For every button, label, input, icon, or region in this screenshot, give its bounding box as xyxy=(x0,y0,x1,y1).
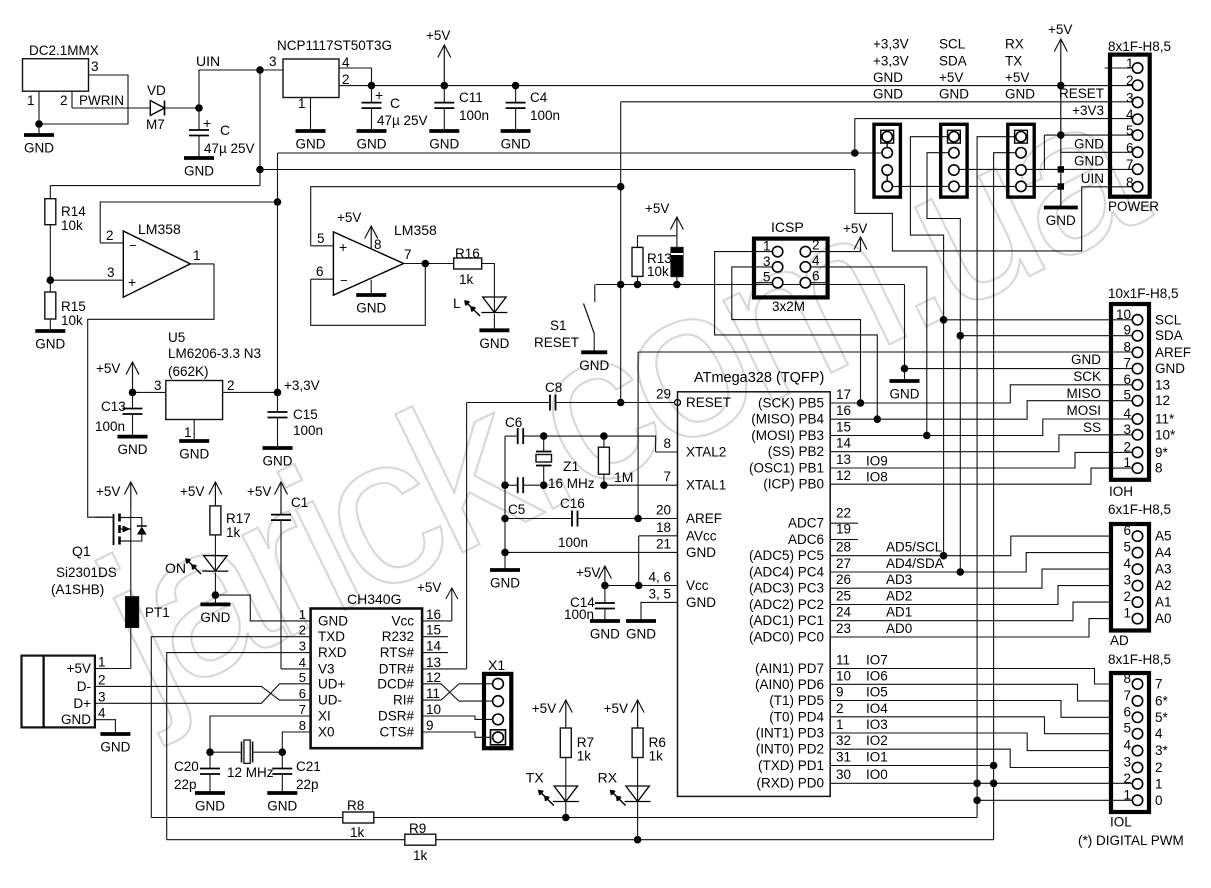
svg-text:100n: 100n xyxy=(564,607,594,622)
svg-text:DSR#: DSR# xyxy=(378,709,415,724)
svg-text:−: − xyxy=(129,238,137,253)
svg-text:7: 7 xyxy=(1123,688,1131,703)
svg-text:7: 7 xyxy=(663,469,671,484)
svg-text:AD3: AD3 xyxy=(886,572,912,587)
svg-text:31: 31 xyxy=(836,750,851,765)
svg-text:IOH: IOH xyxy=(1109,484,1133,499)
svg-text:8: 8 xyxy=(374,237,382,252)
svg-text:IO3: IO3 xyxy=(866,717,888,732)
svg-text:12: 12 xyxy=(1155,393,1170,408)
svg-text:4: 4 xyxy=(1126,107,1134,122)
svg-text:GND: GND xyxy=(1074,137,1104,152)
svg-text:8x1F-H8,5: 8x1F-H8,5 xyxy=(1108,652,1171,667)
svg-text:IO8: IO8 xyxy=(866,470,888,485)
svg-text:2: 2 xyxy=(227,378,235,393)
svg-text:1: 1 xyxy=(1123,455,1131,470)
svg-text:4: 4 xyxy=(98,706,106,721)
svg-text:TX: TX xyxy=(1005,53,1022,68)
svg-text:XTAL1: XTAL1 xyxy=(686,478,726,493)
svg-text:R17: R17 xyxy=(226,511,251,526)
svg-text:A3: A3 xyxy=(1155,562,1172,577)
svg-text:+: + xyxy=(375,87,383,103)
svg-text:29: 29 xyxy=(656,387,671,402)
svg-text:GND: GND xyxy=(200,610,230,625)
svg-text:16: 16 xyxy=(836,403,851,418)
svg-text:10: 10 xyxy=(426,702,441,717)
svg-text:22p: 22p xyxy=(296,777,319,792)
svg-text:13: 13 xyxy=(836,452,851,467)
svg-text:6: 6 xyxy=(316,264,324,279)
svg-text:IO6: IO6 xyxy=(866,668,888,683)
svg-text:23: 23 xyxy=(836,621,851,636)
svg-text:+5V: +5V xyxy=(417,580,441,595)
svg-text:1: 1 xyxy=(27,93,35,108)
svg-text:Vcc: Vcc xyxy=(391,613,414,628)
svg-text:R15: R15 xyxy=(61,299,86,314)
svg-text:+5V: +5V xyxy=(576,565,600,580)
svg-text:GND: GND xyxy=(263,454,293,469)
svg-text:10k: 10k xyxy=(647,264,669,279)
svg-text:2: 2 xyxy=(98,672,106,687)
svg-text:C1: C1 xyxy=(291,495,308,510)
svg-text:+5V: +5V xyxy=(96,484,120,499)
svg-text:ADC7: ADC7 xyxy=(788,516,824,531)
svg-text:R14: R14 xyxy=(61,204,86,219)
svg-text:Q1: Q1 xyxy=(72,543,91,559)
svg-text:15: 15 xyxy=(426,623,441,638)
svg-text:GND: GND xyxy=(118,442,148,457)
svg-text:TXD: TXD xyxy=(318,629,345,644)
svg-text:10k: 10k xyxy=(61,313,83,328)
svg-text:3, 5: 3, 5 xyxy=(648,586,671,601)
svg-text:IO7: IO7 xyxy=(866,653,888,668)
svg-text:IOL: IOL xyxy=(1110,815,1132,830)
svg-text:PT1: PT1 xyxy=(145,605,170,620)
svg-text:XTAL2: XTAL2 xyxy=(686,445,726,460)
svg-text:(RXD) PD0: (RXD) PD0 xyxy=(756,776,824,791)
svg-text:GND: GND xyxy=(1074,154,1104,169)
svg-text:AREF: AREF xyxy=(1155,345,1191,360)
svg-text:8x1F-H8,5: 8x1F-H8,5 xyxy=(1108,39,1171,54)
svg-text:+5V: +5V xyxy=(337,210,361,225)
svg-text:RESET: RESET xyxy=(534,335,579,350)
svg-text:SCL: SCL xyxy=(939,37,966,52)
svg-text:1: 1 xyxy=(98,655,106,670)
svg-text:GND: GND xyxy=(179,447,209,462)
svg-text:47µ 25V: 47µ 25V xyxy=(204,141,255,156)
svg-text:1: 1 xyxy=(1123,787,1131,802)
svg-text:7: 7 xyxy=(299,702,306,717)
svg-text:9: 9 xyxy=(1123,323,1131,338)
svg-text:IO9: IO9 xyxy=(866,454,888,469)
svg-text:GND: GND xyxy=(579,358,609,373)
svg-text:MOSI: MOSI xyxy=(1066,403,1101,418)
svg-text:AREF: AREF xyxy=(686,511,722,526)
svg-text:19: 19 xyxy=(836,522,851,537)
svg-text:7: 7 xyxy=(1126,157,1134,172)
svg-text:4: 4 xyxy=(1155,726,1163,741)
svg-text:7: 7 xyxy=(1123,356,1131,371)
svg-text:+5V: +5V xyxy=(604,701,628,716)
svg-text:X1: X1 xyxy=(488,657,505,673)
svg-text:2: 2 xyxy=(1123,439,1131,454)
svg-text:8: 8 xyxy=(1123,671,1131,686)
svg-text:POWER: POWER xyxy=(1108,199,1159,214)
svg-text:6: 6 xyxy=(299,686,306,701)
svg-text:GND: GND xyxy=(35,337,65,352)
svg-text:R9: R9 xyxy=(409,821,426,836)
svg-text:AD2: AD2 xyxy=(886,589,912,604)
svg-text:1: 1 xyxy=(1126,56,1134,71)
svg-text:8: 8 xyxy=(1123,339,1131,354)
svg-text:(AIN1) PD7: (AIN1) PD7 xyxy=(755,661,824,676)
svg-text:16 MHz: 16 MHz xyxy=(548,476,595,491)
svg-text:RESET: RESET xyxy=(686,395,731,410)
svg-text:ICSP: ICSP xyxy=(771,219,804,235)
svg-text:(ADC3) PC3: (ADC3) PC3 xyxy=(749,581,824,596)
svg-text:2: 2 xyxy=(836,701,844,716)
svg-text:+: + xyxy=(203,115,211,131)
svg-text:7: 7 xyxy=(404,247,412,262)
svg-text:RI#: RI# xyxy=(393,693,415,708)
svg-text:(TXD) PD1: (TXD) PD1 xyxy=(758,758,824,773)
svg-text:1: 1 xyxy=(763,239,771,254)
svg-text:GND: GND xyxy=(1071,352,1101,367)
svg-text:L: L xyxy=(453,295,461,311)
svg-text:28: 28 xyxy=(836,540,851,555)
svg-text:2: 2 xyxy=(1123,771,1131,786)
svg-text:D+: D+ xyxy=(73,696,91,711)
svg-text:(OSC1) PB1: (OSC1) PB1 xyxy=(749,461,824,476)
svg-text:+5V: +5V xyxy=(96,361,120,376)
svg-text:15: 15 xyxy=(836,420,851,435)
svg-text:18: 18 xyxy=(656,520,671,535)
svg-text:27: 27 xyxy=(836,556,851,571)
svg-text:1: 1 xyxy=(1123,606,1131,621)
svg-text:GND: GND xyxy=(318,613,348,628)
svg-text:2: 2 xyxy=(812,238,820,253)
svg-text:11: 11 xyxy=(426,686,440,701)
svg-text:+5V: +5V xyxy=(1005,70,1029,85)
svg-text:(SS) PB2: (SS) PB2 xyxy=(768,444,824,459)
svg-text:C: C xyxy=(220,122,230,138)
svg-text:C20: C20 xyxy=(174,759,199,774)
svg-text:12: 12 xyxy=(836,468,851,483)
svg-text:U5: U5 xyxy=(168,330,185,345)
svg-text:3: 3 xyxy=(1123,422,1131,437)
svg-text:+5V: +5V xyxy=(426,28,450,43)
svg-text:10x1F-H8,5: 10x1F-H8,5 xyxy=(1108,286,1179,301)
svg-text:13: 13 xyxy=(1155,377,1170,392)
svg-text:1: 1 xyxy=(299,607,306,622)
svg-text:Si2301DS: Si2301DS xyxy=(56,565,117,580)
svg-text:(AIN0) PD6: (AIN0) PD6 xyxy=(755,677,824,692)
svg-text:CH340G: CH340G xyxy=(347,591,401,607)
svg-text:4: 4 xyxy=(299,655,306,670)
svg-text:GND: GND xyxy=(429,137,459,152)
svg-text:4, 6: 4, 6 xyxy=(648,570,671,585)
svg-text:4: 4 xyxy=(1123,406,1131,421)
svg-text:GND: GND xyxy=(61,712,91,727)
svg-text:3*: 3* xyxy=(1155,743,1169,758)
svg-text:+5V: +5V xyxy=(67,661,91,676)
svg-text:2: 2 xyxy=(299,623,306,638)
svg-text:V3: V3 xyxy=(318,661,335,676)
svg-text:2: 2 xyxy=(106,228,114,243)
svg-text:1k: 1k xyxy=(350,825,365,840)
svg-text:3: 3 xyxy=(154,378,162,393)
svg-text:RX: RX xyxy=(598,770,618,786)
svg-text:D-: D- xyxy=(77,679,91,694)
svg-text:C15: C15 xyxy=(293,407,318,422)
svg-text:(ADC2) PC2: (ADC2) PC2 xyxy=(749,597,824,612)
svg-text:ON: ON xyxy=(165,560,186,576)
svg-text:AD5/SCL: AD5/SCL xyxy=(886,540,943,555)
svg-text:1: 1 xyxy=(1155,776,1163,791)
svg-text:GND: GND xyxy=(939,87,969,102)
svg-text:3: 3 xyxy=(1123,573,1131,588)
svg-text:DC2.1MMX: DC2.1MMX xyxy=(29,43,99,58)
svg-text:A0: A0 xyxy=(1155,611,1172,626)
svg-text:0: 0 xyxy=(1155,793,1163,808)
svg-text:3x2M: 3x2M xyxy=(772,299,805,314)
svg-text:LM6206-3.3 N3: LM6206-3.3 N3 xyxy=(168,346,261,361)
svg-text:S1: S1 xyxy=(550,318,567,333)
svg-text:SDA: SDA xyxy=(939,53,967,68)
svg-text:Vcc: Vcc xyxy=(686,578,709,593)
svg-text:X0: X0 xyxy=(318,725,335,740)
svg-text:5: 5 xyxy=(1123,540,1131,555)
svg-text:(MISO) PB4: (MISO) PB4 xyxy=(751,412,824,427)
svg-text:+5V: +5V xyxy=(645,201,669,216)
svg-text:SCL: SCL xyxy=(1155,312,1182,327)
svg-text:RESET: RESET xyxy=(1059,86,1104,101)
svg-text:21: 21 xyxy=(656,536,671,551)
svg-text:2: 2 xyxy=(342,72,350,87)
svg-text:GND: GND xyxy=(873,70,903,85)
svg-text:20: 20 xyxy=(656,503,671,518)
svg-text:GND: GND xyxy=(356,301,386,316)
svg-text:(ADC4) PC4: (ADC4) PC4 xyxy=(749,565,825,580)
svg-text:1M: 1M xyxy=(614,469,633,485)
svg-text:AD: AD xyxy=(1110,633,1129,648)
svg-text:PWRIN: PWRIN xyxy=(79,93,124,108)
svg-text:100n: 100n xyxy=(95,419,125,434)
svg-text:A4: A4 xyxy=(1155,545,1172,560)
svg-text:5: 5 xyxy=(1123,721,1131,736)
svg-text:GND: GND xyxy=(267,799,297,814)
svg-text:4: 4 xyxy=(1123,556,1131,571)
svg-text:2: 2 xyxy=(60,93,68,108)
svg-text:3: 3 xyxy=(98,689,106,704)
svg-text:+3,3V: +3,3V xyxy=(284,378,320,393)
svg-text:25: 25 xyxy=(836,589,851,604)
svg-text:TX: TX xyxy=(526,770,545,786)
svg-text:GND: GND xyxy=(296,137,326,152)
svg-text:22p: 22p xyxy=(174,777,197,792)
svg-text:10: 10 xyxy=(1116,307,1131,322)
svg-text:(*) DIGITAL PWM: (*) DIGITAL PWM xyxy=(1078,833,1184,848)
svg-text:(ADC5) PC5: (ADC5) PC5 xyxy=(749,548,824,563)
svg-text:9*: 9* xyxy=(1155,445,1169,460)
svg-text:5: 5 xyxy=(1123,388,1131,403)
svg-text:C6: C6 xyxy=(505,415,522,430)
svg-text:(T0) PD4: (T0) PD4 xyxy=(769,709,824,724)
svg-text:32: 32 xyxy=(836,733,851,748)
svg-text:(SCK) PB5: (SCK) PB5 xyxy=(758,396,824,411)
svg-text:30: 30 xyxy=(836,767,851,782)
svg-text:A1: A1 xyxy=(1155,595,1172,610)
svg-text:(MOSI) PB3: (MOSI) PB3 xyxy=(751,428,824,443)
svg-text:12: 12 xyxy=(426,670,441,685)
svg-text:SS: SS xyxy=(1083,420,1101,435)
svg-text:XI: XI xyxy=(318,709,331,724)
svg-text:+3,3V: +3,3V xyxy=(873,53,909,68)
svg-text:6*: 6* xyxy=(1155,693,1169,708)
svg-text:SCK: SCK xyxy=(1073,369,1101,384)
svg-text:17: 17 xyxy=(836,387,851,402)
svg-text:C16: C16 xyxy=(560,496,585,511)
svg-text:R232: R232 xyxy=(382,629,414,644)
svg-text:GND: GND xyxy=(590,627,620,642)
svg-text:1k: 1k xyxy=(413,848,428,863)
svg-text:SDA: SDA xyxy=(1155,328,1183,343)
svg-text:1k: 1k xyxy=(226,525,241,540)
svg-text:7: 7 xyxy=(1155,677,1163,692)
svg-text:14: 14 xyxy=(426,639,442,654)
svg-text:+3V3: +3V3 xyxy=(1072,103,1104,118)
svg-text:GND: GND xyxy=(184,164,214,179)
svg-text:2: 2 xyxy=(1123,589,1131,604)
svg-text:8: 8 xyxy=(1155,461,1163,476)
svg-text:4: 4 xyxy=(1123,738,1131,753)
svg-text:9: 9 xyxy=(836,685,844,700)
svg-text:A5: A5 xyxy=(1155,529,1172,544)
svg-text:8: 8 xyxy=(299,718,306,733)
svg-text:GND: GND xyxy=(873,87,903,102)
svg-text:(ADC0) PC0: (ADC0) PC0 xyxy=(749,630,824,645)
svg-text:6x1F-H8,5: 6x1F-H8,5 xyxy=(1108,502,1171,517)
svg-text:10: 10 xyxy=(836,668,851,683)
svg-text:1k: 1k xyxy=(459,272,474,287)
svg-text:+5V: +5V xyxy=(247,484,271,499)
svg-text:1: 1 xyxy=(298,96,306,111)
svg-text:(A1SHB): (A1SHB) xyxy=(51,582,104,597)
svg-text:GND: GND xyxy=(479,336,509,351)
svg-text:+: + xyxy=(128,274,136,290)
svg-text:8: 8 xyxy=(1126,175,1134,190)
svg-text:10k: 10k xyxy=(61,218,83,233)
svg-text:AD1: AD1 xyxy=(886,605,912,620)
svg-text:C13: C13 xyxy=(101,399,126,414)
svg-text:+: + xyxy=(339,239,347,255)
svg-text:8: 8 xyxy=(663,436,671,451)
svg-text:GND: GND xyxy=(501,137,531,152)
svg-text:UIN: UIN xyxy=(196,53,220,69)
svg-text:(ICP) PB0: (ICP) PB0 xyxy=(763,477,824,492)
svg-text:6: 6 xyxy=(1123,523,1131,538)
svg-text:14: 14 xyxy=(836,436,852,451)
svg-text:2: 2 xyxy=(1126,73,1134,88)
svg-text:GND: GND xyxy=(626,627,656,642)
svg-text:−: − xyxy=(340,273,348,288)
svg-text:ATmega328 (TQFP): ATmega328 (TQFP) xyxy=(694,370,824,386)
svg-text:11*: 11* xyxy=(1155,412,1175,427)
svg-text:LM358: LM358 xyxy=(138,221,181,237)
svg-text:11: 11 xyxy=(836,653,850,668)
svg-text:3: 3 xyxy=(1123,755,1131,770)
svg-text:1: 1 xyxy=(193,248,201,263)
svg-text:LM358: LM358 xyxy=(394,222,437,238)
svg-text:C21: C21 xyxy=(296,759,321,774)
svg-text:GND: GND xyxy=(686,545,716,560)
svg-text:GND: GND xyxy=(195,799,225,814)
svg-text:3: 3 xyxy=(763,254,771,269)
svg-text:1k: 1k xyxy=(649,749,664,764)
svg-text:DTR#: DTR# xyxy=(379,661,415,676)
svg-text:22: 22 xyxy=(836,505,851,520)
svg-text:UIN: UIN xyxy=(1081,171,1104,186)
svg-text:GND: GND xyxy=(1005,87,1035,102)
svg-text:(T1) PD5: (T1) PD5 xyxy=(769,693,824,708)
svg-text:100n: 100n xyxy=(293,423,323,438)
svg-text:GND: GND xyxy=(1155,361,1185,376)
svg-text:C8: C8 xyxy=(545,380,562,395)
svg-text:ADC6: ADC6 xyxy=(788,532,824,547)
svg-text:(662K): (662K) xyxy=(168,364,209,379)
svg-text:3: 3 xyxy=(107,265,115,280)
svg-text:IO1: IO1 xyxy=(866,750,888,765)
svg-text:13: 13 xyxy=(426,655,441,670)
svg-text:1: 1 xyxy=(184,425,192,440)
svg-text:+5V: +5V xyxy=(939,70,963,85)
svg-text:GND: GND xyxy=(100,740,130,755)
svg-text:+5V: +5V xyxy=(1048,22,1072,37)
svg-text:5: 5 xyxy=(299,670,306,685)
svg-text:3: 3 xyxy=(299,639,306,654)
svg-text:6: 6 xyxy=(1123,704,1131,719)
svg-text:GND: GND xyxy=(1046,213,1076,228)
svg-text:3: 3 xyxy=(1126,90,1134,105)
svg-text:NCP1117ST50T3G: NCP1117ST50T3G xyxy=(277,38,392,53)
svg-text:GND: GND xyxy=(490,576,520,591)
svg-text:IO4: IO4 xyxy=(866,701,888,716)
svg-text:6: 6 xyxy=(1123,372,1131,387)
svg-text:AD0: AD0 xyxy=(886,621,912,636)
svg-text:AVcc: AVcc xyxy=(686,528,717,543)
svg-text:3: 3 xyxy=(91,59,99,74)
svg-text:4: 4 xyxy=(812,253,820,268)
svg-text:3: 3 xyxy=(269,54,277,69)
svg-text:GND: GND xyxy=(24,141,54,156)
svg-text:(ADC1) PC1: (ADC1) PC1 xyxy=(749,613,824,628)
svg-text:Z1: Z1 xyxy=(563,458,580,474)
svg-text:+5V: +5V xyxy=(532,701,556,716)
svg-text:5*: 5* xyxy=(1155,710,1169,725)
svg-text:12 MHz: 12 MHz xyxy=(227,765,274,780)
svg-text:VD: VD xyxy=(147,83,166,98)
svg-text:24: 24 xyxy=(836,605,852,620)
svg-text:10*: 10* xyxy=(1155,427,1176,442)
svg-text:5: 5 xyxy=(317,231,325,246)
svg-text:IO0: IO0 xyxy=(866,767,888,782)
svg-text:+5V: +5V xyxy=(180,484,204,499)
svg-text:MISO: MISO xyxy=(1066,386,1101,401)
svg-text:C4: C4 xyxy=(530,90,548,105)
svg-text:+5V: +5V xyxy=(843,221,867,236)
svg-text:R16: R16 xyxy=(455,246,480,261)
svg-text:(INT0) PD2: (INT0) PD2 xyxy=(756,742,824,757)
